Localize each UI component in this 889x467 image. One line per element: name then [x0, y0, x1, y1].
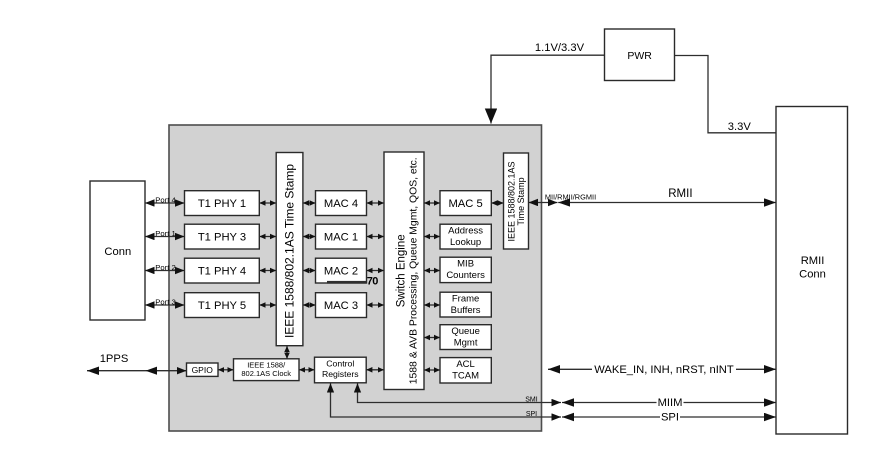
svg-text:SPI: SPI	[526, 411, 537, 418]
wire PWR supply 3.3V to RMII Conn	[675, 56, 777, 133]
svg-text:Buffers: Buffers	[451, 305, 481, 316]
svg-text:MAC 5: MAC 5	[448, 198, 482, 210]
wire PWR supply 1.1V/3.3V into chip	[491, 55, 605, 123]
block MAC 3	[316, 293, 367, 318]
wire T1 PHY 5 to Time Stamp	[259, 304, 276, 306]
svg-text:SMI: SMI	[525, 397, 538, 404]
wire T1 PHY 4 to Time Stamp	[259, 270, 276, 272]
svg-text:70: 70	[367, 275, 378, 287]
svg-text:Port 3: Port 3	[155, 297, 176, 306]
svg-text:MAC 4: MAC 4	[324, 198, 358, 210]
block T1 PHY 4	[185, 258, 260, 283]
svg-text:MIB: MIB	[457, 259, 474, 270]
wire Conn to T1 PHY 1 (Port 4)	[145, 202, 185, 204]
wire SPI from Control Registers	[331, 383, 562, 417]
wire Time Stamp to MAC 2	[303, 270, 316, 272]
wire Time Stamp to MAC 3	[303, 304, 316, 306]
block MAC 5	[440, 191, 491, 216]
wire SMI from Control Registers	[358, 383, 562, 402]
wire Time Stamp 2 to chip edge (MII/RMII/RGMII)	[529, 202, 558, 204]
wire MIIM external to RMII Conn	[562, 402, 776, 404]
svg-text:SPI: SPI	[661, 412, 679, 424]
svg-text:T1 PHY 4: T1 PHY 4	[198, 266, 246, 278]
svg-text:Port 2: Port 2	[155, 263, 176, 272]
svg-text:TCAM: TCAM	[452, 370, 479, 381]
label WAKE_IN, INH, nRST, nINT	[592, 363, 736, 376]
wire Switch Engine to Queue Mgmt	[424, 337, 440, 339]
svg-text:Counters: Counters	[446, 270, 485, 281]
chip outline (gray block)	[169, 125, 542, 431]
svg-text:Queue: Queue	[451, 326, 480, 337]
wire MAC 2 to Switch Engine	[367, 270, 385, 272]
wire Time Stamp to MAC 1	[303, 236, 316, 238]
wire WAKE_IN INH nRST nINT	[548, 368, 776, 370]
wire Control Registers to Switch Engine	[366, 369, 384, 371]
svg-text:Conn: Conn	[799, 268, 826, 280]
block MAC 2	[316, 258, 367, 283]
block T1 PHY 1	[185, 191, 260, 216]
block IEEE 1588/802.1AS Time Stamp (right)	[504, 153, 529, 249]
label SPI	[660, 411, 680, 423]
wire Switch Engine to MIB Counters	[424, 270, 440, 272]
block Control Registers	[315, 357, 367, 383]
svg-text:802.1AS Clock: 802.1AS Clock	[241, 369, 291, 378]
block PWR	[605, 29, 675, 81]
block MIB Counters	[440, 257, 491, 282]
block Queue Mgmt	[440, 325, 491, 350]
block Switch Engine	[384, 152, 424, 390]
wire Switch Engine to ACL TCAM	[424, 369, 440, 371]
wire Conn to T1 PHY 4 (Port 2)	[145, 270, 185, 272]
svg-text:T1 PHY 5: T1 PHY 5	[198, 300, 246, 312]
svg-text:1.1V/3.3V: 1.1V/3.3V	[535, 42, 585, 54]
svg-text:Registers: Registers	[322, 369, 359, 379]
wire RMII external to RMII Conn	[558, 202, 776, 204]
block Address Lookup	[440, 224, 491, 249]
wire MAC 5 to Time Stamp 2	[491, 202, 503, 204]
svg-text:WAKE_IN, INH, nRST, nINT: WAKE_IN, INH, nRST, nINT	[594, 364, 734, 376]
wire Switch Engine to Frame Buffers	[424, 304, 440, 306]
svg-text:Lookup: Lookup	[450, 237, 481, 248]
connector Conn	[90, 181, 145, 320]
svg-text:Frame: Frame	[452, 294, 479, 305]
watermark remnant under MAC 2	[327, 281, 367, 284]
wire Switch Engine to Address Lookup	[424, 236, 440, 238]
block T1 PHY 3	[185, 224, 260, 249]
arrowhead mid 1PPS line	[146, 367, 158, 375]
svg-text:RMII: RMII	[668, 188, 692, 200]
wire T1 PHY 1 to Time Stamp	[259, 202, 276, 204]
wire 1588 clock to Control Registers	[299, 369, 315, 371]
svg-text:MII/RMII/RGMII: MII/RMII/RGMII	[545, 192, 596, 201]
svg-text:MAC 3: MAC 3	[324, 300, 358, 312]
svg-text:RMII: RMII	[801, 255, 825, 267]
block Frame Buffers	[440, 292, 491, 317]
wire Time Stamp to 1588 clock (vertical)	[286, 346, 288, 359]
svg-text:Control: Control	[326, 359, 354, 369]
wire T1 PHY 3 to Time Stamp	[259, 236, 276, 238]
svg-text:MAC 2: MAC 2	[324, 266, 358, 278]
svg-text:ACL: ACL	[456, 359, 474, 370]
wire SPI external to RMII Conn	[562, 416, 776, 418]
wire Conn to T1 PHY 5 (Port 3)	[145, 304, 185, 306]
svg-text:Conn: Conn	[104, 246, 131, 258]
wire Conn to T1 PHY 3 (Port 1)	[145, 236, 185, 238]
wire Time Stamp to MAC 4	[303, 202, 316, 204]
wire Switch Engine to MAC 5	[424, 202, 440, 204]
wire 1PPS to GPIO	[87, 370, 187, 372]
svg-text:Mgmt: Mgmt	[454, 338, 478, 349]
svg-text:1PPS: 1PPS	[100, 353, 129, 365]
svg-text:1588 & AVB Processing, Queue M: 1588 & AVB Processing, Queue Mgmt, QOS, …	[408, 157, 420, 384]
block IEEE 1588/802.1AS Clock	[234, 359, 300, 381]
wire GPIO to 1588 clock	[218, 369, 234, 371]
svg-text:PWR: PWR	[627, 50, 652, 62]
block ACL TCAM	[440, 358, 491, 383]
svg-text:Time Stamp: Time Stamp	[516, 177, 526, 225]
svg-text:GPIO: GPIO	[192, 365, 214, 375]
svg-text:Port 1: Port 1	[155, 229, 176, 238]
block T1 PHY 5	[185, 293, 260, 318]
block IEEE 1588/802.1AS Time Stamp (left)	[276, 153, 303, 346]
svg-text:IEEE 1588/802.1AS Time Stamp: IEEE 1588/802.1AS Time Stamp	[283, 164, 297, 338]
svg-text:Address: Address	[448, 226, 483, 237]
block MAC 1	[316, 224, 367, 249]
wire MAC 4 to Switch Engine	[367, 202, 385, 204]
svg-text:MIIM: MIIM	[658, 397, 683, 409]
connector RMII Conn	[776, 107, 848, 435]
block MAC 4	[316, 191, 367, 216]
label MIIM	[657, 397, 684, 409]
wire MAC 1 to Switch Engine	[367, 236, 385, 238]
svg-text:T1 PHY 3: T1 PHY 3	[198, 232, 246, 244]
svg-text:T1 PHY 1: T1 PHY 1	[198, 198, 246, 210]
wire MAC 3 to Switch Engine	[367, 304, 385, 306]
svg-text:3.3V: 3.3V	[728, 121, 752, 133]
svg-text:Port 4: Port 4	[155, 195, 176, 204]
block GPIO	[187, 363, 219, 376]
svg-text:MAC 1: MAC 1	[324, 232, 358, 244]
svg-text:Switch Engine: Switch Engine	[396, 234, 408, 307]
